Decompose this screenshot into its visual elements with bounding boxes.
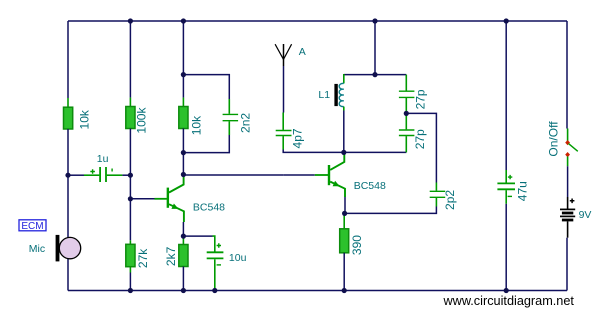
capacitor C 47u plus sign — [508, 175, 512, 179]
wire L1 to tank bottom node — [343, 111, 345, 153]
resistor R 27k — [126, 244, 135, 266]
microphone bar — [56, 235, 60, 262]
wire left rail mid — [67, 129, 69, 238]
capacitor C 1u right lead — [107, 174, 123, 176]
capacitor C 2p2 top lead — [435, 183, 437, 191]
resistor R 10k left lead top — [67, 98, 69, 107]
junction dot Q1 emitter node — [181, 234, 186, 239]
resistor R 100k top lead — [129, 98, 131, 107]
capacitor C 27p (bottom) plates — [399, 130, 415, 136]
svg-text:100k: 100k — [135, 107, 149, 134]
resistor R 10k (left) — [64, 107, 73, 129]
junction dot tank top — [372, 72, 377, 77]
capacitor C 27p (bottom) leads — [405, 113, 407, 152]
svg-text:9V: 9V — [579, 209, 592, 221]
capacitor C 10u plus sign — [217, 243, 221, 247]
capacitor C 2n2 plates — [223, 114, 239, 120]
junction dot top rail at 100k — [128, 18, 133, 23]
wire top rail — [68, 20, 567, 22]
svg-text:2k7: 2k7 — [164, 246, 178, 266]
capacitor C 47u plates — [497, 183, 515, 189]
switch top lead — [567, 129, 569, 142]
svg-text:27p: 27p — [414, 89, 428, 109]
capacitor C 2p2 bottom lead — [435, 198, 437, 207]
switch bottom lead — [567, 157, 569, 167]
svg-text:1u: 1u — [97, 153, 109, 165]
battery BT 9V — [560, 197, 575, 238]
capacitor C 10u bottom lead — [214, 259, 216, 288]
antenna stem — [283, 44, 285, 66]
svg-text:Mic: Mic — [29, 243, 45, 255]
resistor R 390 top lead — [343, 213, 345, 228]
wire node to collector junction — [182, 153, 184, 175]
inductor L1 top lead — [343, 74, 345, 83]
wire tank bottom — [344, 151, 407, 153]
wire 2n2 top branch — [183, 75, 229, 99]
transistor Q1 BC548 — [168, 176, 184, 222]
svg-text:ECM: ECM — [21, 221, 43, 232]
inductor L1 core bar — [334, 84, 337, 106]
capacitor C 27p (top) leads — [405, 75, 407, 114]
capacitor C 2p2 plates — [430, 191, 446, 197]
svg-text:4p7: 4p7 — [290, 128, 304, 148]
svg-text:27k: 27k — [136, 248, 150, 268]
wire tank top — [344, 74, 407, 76]
capacitor C 1u minus tick — [111, 169, 113, 172]
wire 10k2 column upper — [182, 21, 184, 98]
capacitor C 47u top lead — [505, 170, 507, 183]
wire left rail upper — [67, 21, 69, 98]
svg-text:L1: L1 — [318, 89, 330, 101]
wire node to 10u — [183, 235, 212, 237]
switch contact bottom — [565, 152, 570, 157]
wire antenna to 4p7 — [283, 66, 285, 113]
svg-text:2p2: 2p2 — [443, 190, 457, 210]
junction dot 2n2 bottom — [181, 150, 186, 155]
junction dot bottom rail at 10u — [212, 288, 217, 293]
junction dot bottom rail at 390 — [342, 288, 347, 293]
inductor L1 bottom lead — [343, 107, 345, 111]
junction dot 1u right — [128, 173, 133, 178]
wire 100k column mid — [129, 129, 131, 241]
junction dot top rail at 47u — [504, 18, 509, 23]
wire switch to battery — [567, 166, 569, 197]
svg-text:A: A — [299, 46, 306, 58]
wire 10u stub to rail — [214, 289, 216, 291]
resistor R 10k (second) — [179, 107, 188, 129]
wire 10k2 bottom to node — [182, 129, 184, 153]
svg-text:www.circuitdiagram.net: www.circuitdiagram.net — [443, 294, 575, 308]
junction dot Q1 base — [128, 196, 133, 201]
wire Q2 base — [283, 174, 315, 176]
wire top rail drop to tank — [374, 21, 376, 75]
capacitor C 47u minus sign — [508, 195, 512, 197]
resistor R 27k bottom lead — [129, 267, 131, 273]
ECM box — [19, 220, 46, 231]
svg-text:10k: 10k — [78, 109, 92, 129]
junction dot 27p mid — [404, 111, 409, 116]
inductor L1 coil — [339, 83, 344, 106]
switch lever — [569, 144, 578, 152]
wire 27k to bottom rail — [129, 273, 131, 291]
capacitor C 10u minus sign — [217, 264, 221, 266]
switch contact top — [565, 140, 570, 145]
wire left rail lower — [67, 259, 69, 291]
transistor Q2 BC548 — [329, 154, 345, 197]
transistor Q2 base lead — [315, 174, 328, 176]
capacitor C 4p7 top lead — [282, 113, 284, 130]
svg-text:10u: 10u — [229, 252, 247, 264]
microphone body — [59, 237, 80, 258]
antenna arms — [275, 44, 292, 59]
capacitor C 1u left lead — [68, 174, 84, 176]
wire 2p2 to Q2 emitter node — [344, 207, 436, 214]
svg-text:47u: 47u — [516, 181, 530, 201]
junction dot Q2 emitter node — [342, 211, 347, 216]
junction dot bottom rail at 2k7 — [181, 288, 186, 293]
wire 2k7 to bottom rail — [182, 267, 184, 291]
resistor R 27k top lead — [129, 240, 131, 244]
wire 2n2 bottom branch — [183, 135, 229, 153]
capacitor C 10u top lead — [213, 235, 215, 251]
capacitor C 1u plates — [100, 167, 106, 182]
capacitor C 1u plus sign — [90, 169, 95, 174]
junction dot tank bottom — [341, 150, 346, 155]
svg-text:BC548: BC548 — [193, 202, 225, 214]
battery plus sign — [570, 199, 575, 204]
junction dot 2n2 top — [181, 72, 186, 77]
transistor Q1 base lead — [155, 198, 167, 200]
junction dot 1u left — [65, 173, 70, 178]
svg-text:On/Off: On/Off — [546, 121, 560, 157]
junction dot top rail at tank — [372, 18, 377, 23]
wire right rail top — [566, 21, 568, 129]
wire 27p junction to 2p2 — [409, 113, 437, 182]
capacitor C 10u plates — [207, 252, 224, 258]
resistor R 10k2 top lead — [182, 98, 184, 107]
junction dot Q1 collector — [181, 172, 186, 177]
wire 47u column upper — [505, 21, 507, 170]
junction dot bottom rail at 27k — [128, 288, 133, 293]
capacitor C 4p7 plates — [276, 131, 292, 136]
svg-text:390: 390 — [350, 235, 364, 255]
capacitor C 47u bottom lead — [505, 190, 507, 204]
resistor R 100k — [126, 107, 135, 129]
wire Q1 emitter to node — [182, 222, 184, 236]
resistor R 2k7 — [179, 245, 188, 267]
resistor R 2k7 top lead — [182, 236, 184, 244]
svg-text:10k: 10k — [189, 115, 203, 135]
svg-text:27p: 27p — [413, 129, 427, 149]
wire 4p7 to tank bottom — [283, 150, 344, 153]
capacitor C 2n2 bottom lead — [228, 121, 230, 135]
junction dot bottom rail at 47u — [504, 288, 509, 293]
capacitor C 4p7 bottom lead — [282, 136, 284, 149]
wire bottom rail — [68, 290, 567, 292]
svg-text:BC548: BC548 — [354, 180, 386, 192]
wire Q1 collector to Q2 base (long) — [183, 174, 283, 176]
wire 47u column lower — [505, 204, 507, 291]
junction dot top rail at 10k2 — [181, 18, 186, 23]
resistor R 390 — [340, 229, 349, 253]
wire Q1 base from 100k column — [130, 198, 154, 200]
capacitor C 27p (top) plates — [399, 91, 415, 97]
wire 390 to bottom rail — [343, 253, 345, 291]
wire Q2 emitter to node — [344, 197, 346, 213]
wire right rail bottom — [566, 238, 568, 291]
capacitor C 2n2 top lead — [228, 99, 230, 114]
wire 100k column upper — [129, 21, 131, 98]
svg-text:2n2: 2n2 — [239, 113, 253, 133]
